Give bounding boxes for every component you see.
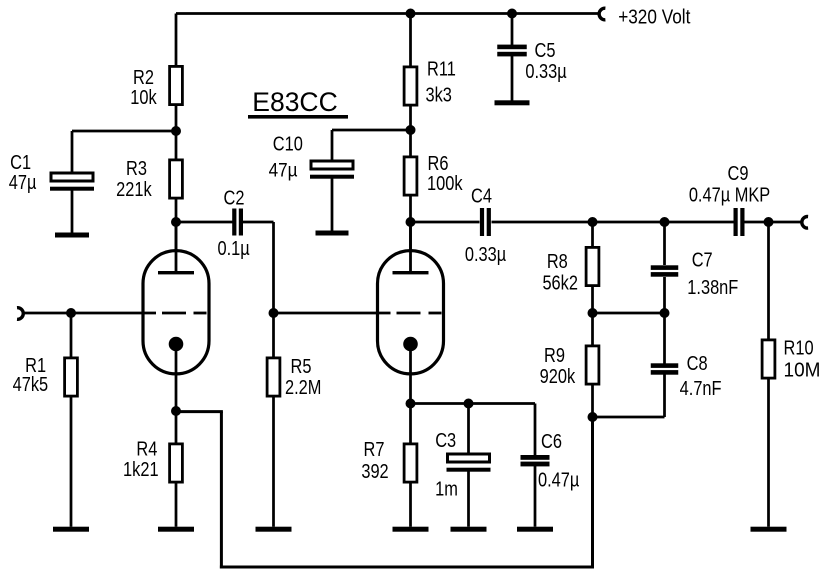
svg-text:C7: C7 [692,248,713,271]
svg-text:+320 Volt: +320 Volt [618,5,691,28]
svg-text:0.33µ: 0.33µ [525,59,567,82]
svg-text:920k: 920k [540,364,576,387]
svg-text:C5: C5 [535,38,556,61]
svg-text:C9: C9 [728,161,749,184]
svg-text:392: 392 [361,459,388,482]
svg-text:10M: 10M [784,359,821,382]
svg-text:R5: R5 [291,355,312,378]
svg-text:47µ: 47µ [269,159,298,180]
svg-text:47µ: 47µ [9,170,37,193]
svg-text:221k: 221k [116,177,152,200]
svg-text:R11: R11 [427,57,456,80]
svg-text:R10: R10 [784,336,814,359]
svg-text:2.2M: 2.2M [285,375,321,398]
svg-text:1.38nF: 1.38nF [687,275,738,298]
svg-text:C2: C2 [224,186,245,209]
svg-text:C8: C8 [687,351,708,374]
svg-text:10k: 10k [130,85,157,108]
svg-text:0.33µ: 0.33µ [465,242,507,265]
svg-text:47k5: 47k5 [13,373,49,396]
svg-text:C6: C6 [541,430,562,453]
svg-text:C3: C3 [435,429,456,452]
svg-text:4.7nF: 4.7nF [680,376,722,399]
svg-text:0.47µ MKP: 0.47µ MKP [689,183,770,206]
svg-text:0.47µ: 0.47µ [538,468,580,491]
svg-text:C4: C4 [471,184,492,207]
svg-text:E83CC: E83CC [252,87,337,117]
svg-text:3k3: 3k3 [426,83,452,106]
svg-text:R9: R9 [544,344,565,367]
svg-text:1k21: 1k21 [123,457,159,480]
svg-text:1m: 1m [435,477,458,500]
svg-text:R3: R3 [126,156,147,179]
svg-text:R7: R7 [364,437,385,460]
svg-text:0.1µ: 0.1µ [217,237,250,260]
svg-text:C10: C10 [273,132,303,155]
svg-text:56k2: 56k2 [542,271,578,294]
svg-text:100k: 100k [427,171,463,194]
svg-text:R8: R8 [547,249,568,272]
